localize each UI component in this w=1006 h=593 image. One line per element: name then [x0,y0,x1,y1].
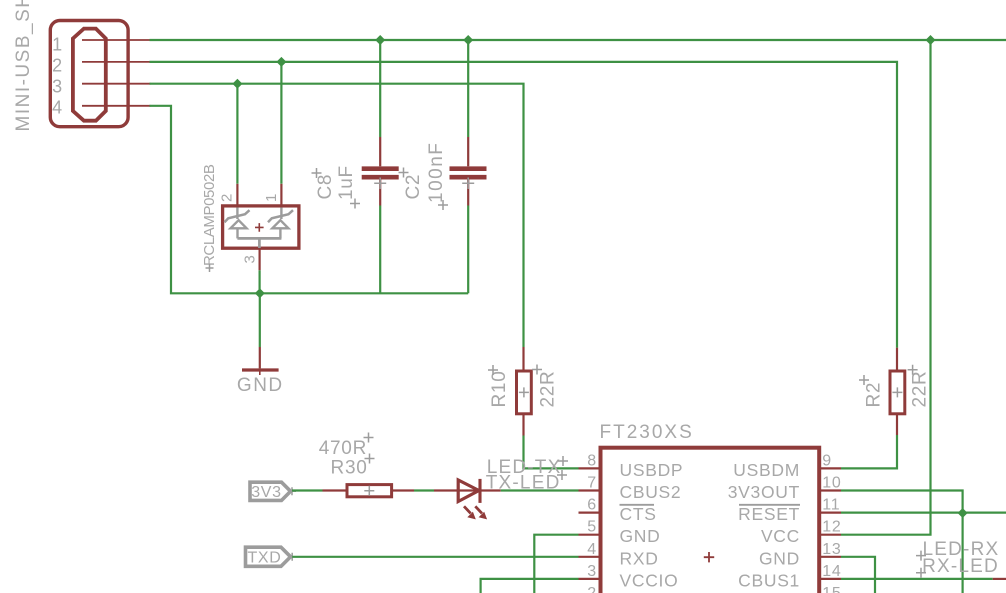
connector X1 MINI-USB_SH body [50,21,128,127]
capacitor C2 bottom lead [462,178,474,294]
LED D1 arrow 1 [464,506,476,519]
diode array U2 RCLAMP0502B pin 1 stub [280,184,282,206]
svg-text:RXD: RXD [620,548,659,568]
svg-text:VCC: VCC [761,526,800,546]
resistor R30 left lead [323,489,348,491]
wire RCLAMP pin1 drop [280,62,282,184]
resistor R2 bottom lead [896,415,898,436]
IC U1 pin 4 stub [579,556,601,558]
LED D1 name cross [557,470,567,480]
svg-text:CBUS2: CBUS2 [620,482,682,502]
diode array U2 right TVS diode [268,208,293,239]
resistor R10 top lead [522,347,524,370]
capacitor C8 name cross [312,168,322,178]
svg-text:R10: R10 [489,371,510,408]
resistor R30 origin cross [364,486,374,496]
wire net VBUS top rail [150,39,1006,41]
resistor R10 origin cross [519,387,529,397]
svg-text:RESET: RESET [738,504,800,524]
svg-text:6: 6 [587,497,597,514]
net label LED-TX cross [558,456,568,466]
LED D1 triangle [458,480,479,502]
capacitor C8 top lead [379,40,381,166]
svg-text:FT230XS: FT230XS [600,422,694,443]
svg-text:USBDM: USBDM [733,460,800,480]
IC U1 pin 11 stub [819,511,841,513]
svg-text:11: 11 [822,497,840,514]
svg-text:8: 8 [587,452,597,469]
svg-text:3V3: 3V3 [251,484,282,501]
wire net VCCIO from pin3 down [481,579,579,593]
svg-text:CTS: CTS [620,504,657,524]
diode array U2 origin cross [255,223,264,232]
LED D1 arrow 2 [475,506,487,519]
svg-text:C8: C8 [315,174,336,200]
svg-text:4: 4 [52,97,63,117]
connector X1 pin 2 line [82,61,151,63]
wire net CBUS1 pin14 to RX LED [841,578,993,580]
svg-text:2: 2 [219,193,236,202]
svg-text:5: 5 [587,519,597,536]
capacitor C8 plates [362,169,399,178]
svg-text:3V3OUT: 3V3OUT [728,482,800,502]
net label LED-RX cross [916,551,926,561]
connector X1 pin 4 line [82,105,151,107]
IC U1 pin 14 stub [819,578,841,580]
resistor R10 bottom lead [522,415,524,436]
svg-text:1: 1 [52,34,63,54]
wire net LED-TX from R10 to pin8 [524,436,579,469]
svg-text:R30: R30 [331,458,368,479]
junction GND rail [255,288,265,298]
capacitor C2 plates [450,169,487,178]
resistor R30 name cross [365,454,375,464]
wire net GND pin13 down [841,557,875,593]
svg-text:14: 14 [822,563,841,580]
diode array U2 RCLAMP0502B pin 2 stub [236,184,238,206]
svg-text:470R: 470R [319,438,367,459]
svg-text:2: 2 [52,56,63,76]
wire net VCC vertical from VBUS rail to pin12 [841,40,931,535]
wire net USBDP rail to R10 [150,84,524,347]
wire net USBDM from R2 to pin9 [841,435,897,468]
svg-text:TXD: TXD [247,549,281,566]
resistor R30 value cross [364,433,374,443]
LED D2 name cross [916,568,926,578]
wire net GND from pin4 to bottom rail [150,106,469,293]
IC U1 pin 6 stub [579,511,601,513]
svg-text:1: 1 [263,193,280,202]
wire GND stem [259,293,261,347]
svg-text:12: 12 [822,519,841,536]
svg-text:3: 3 [52,77,63,97]
svg-text:VCCIO: VCCIO [620,570,679,590]
svg-text:MINI-USB_SH: MINI-USB_SH [13,0,34,132]
IC U1 pin 7 stub [579,489,601,491]
svg-text:22R: 22R [910,371,931,408]
wire vertical below junction [961,513,963,593]
wire net 3V3 to R30 [292,489,323,491]
IC U1 FT230XS body [601,448,820,593]
wire net from R30 to LED [414,489,434,491]
svg-text:15: 15 [822,585,841,593]
svg-text:22R: 22R [538,371,559,408]
svg-text:3: 3 [241,254,258,263]
svg-text:RCLAMP0502B: RCLAMP0502B [201,164,218,266]
svg-text:C2: C2 [403,174,424,200]
junction USBDM RCLAMP [276,57,286,67]
svg-text:3: 3 [587,563,597,580]
capacitor C8 bottom lead [374,178,386,294]
resistor R2 top lead [896,348,898,370]
LED D1 TX-LED anode lead and through line [434,489,501,491]
IC U1 pin 10 stub [819,489,841,491]
svg-text:GND: GND [620,526,661,546]
junction VBUS VCC branch [926,35,936,45]
svg-text:9: 9 [822,452,832,469]
wire RCLAMP pin2 drop [236,84,238,184]
wire net TX-LED to pin7 [501,489,579,491]
svg-text:7: 7 [587,475,597,492]
connector X1 pin 1 line [82,39,151,41]
wire net GND from pin5 down [534,535,578,593]
diode array U2 RCLAMP0502B box [223,206,299,248]
junction VBUS C8 [375,35,385,45]
svg-text:100nF: 100nF [426,142,447,203]
diode array U2 name origin cross [206,264,214,272]
LED D2 RX anode stub clipped [993,578,1006,580]
svg-text:2: 2 [587,585,597,593]
resistor R2 value cross [908,365,918,375]
capacitor C2 top lead [467,40,469,166]
svg-text:R2: R2 [864,382,885,408]
IC U1 pin 8 stub [579,467,601,469]
svg-text:CBUS1: CBUS1 [738,570,800,590]
IC U1 pin 3 stub [579,578,601,580]
resistor R10 body [517,371,532,414]
IC U1 pin 11 RESET overline [739,504,800,506]
IC U1 pin 9 stub [819,467,841,469]
svg-text:GND: GND [237,375,284,396]
resistor R30 body [347,485,392,497]
diode array U2 left TVS diode [225,208,250,239]
wire net RESET pin11 [841,511,1006,513]
supply flag TXD [246,547,297,566]
svg-text:GND: GND [759,548,800,568]
svg-text:USBDP: USBDP [620,460,684,480]
wire RCLAMP pin3 to GND rail [259,270,261,293]
LED D1 cathode bar [478,479,481,503]
diode array U2 pin 3 stub [259,248,261,270]
junction VBUS C2 [463,35,473,45]
ground symbol [242,347,279,375]
wire net TXD to pin4 [292,556,578,558]
IC U1 origin cross [704,552,714,562]
resistor R2 origin cross [892,387,902,397]
capacitor C8 value cross [350,199,360,209]
svg-text:1uF: 1uF [336,165,357,200]
svg-text:10: 10 [822,475,841,492]
IC U1 pin 5 stub [579,534,601,536]
wire net USBDM rail to R2 [150,62,898,348]
IC U1 pin 12 stub [819,534,841,536]
diode array U2 common bus [237,238,281,248]
resistor R2 name cross [859,375,869,385]
svg-text:4: 4 [587,541,597,558]
resistor R10 value cross [532,365,542,375]
connector X1 pin 3 line [82,83,151,85]
capacitor C2 value cross [438,200,448,210]
svg-text:RX-LED: RX-LED [922,556,999,577]
IC U1 pin 6 CTS overline [620,504,655,506]
resistor R10 name cross [488,365,498,375]
junction USBDP RCLAMP [232,79,242,89]
junction RESET vertical [958,508,968,518]
wire net 3V3OUT pin10 [841,491,963,514]
resistor R30 right lead [392,489,414,491]
resistor R2 body [890,371,905,414]
svg-text:13: 13 [822,541,841,558]
supply flag 3V3 [250,482,296,501]
capacitor C2 name cross [399,168,409,178]
IC U1 pin 13 stub [819,556,841,558]
